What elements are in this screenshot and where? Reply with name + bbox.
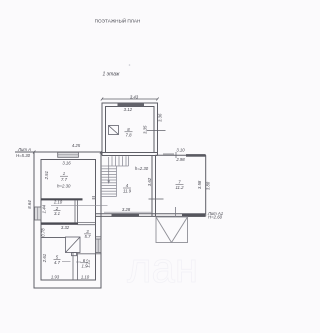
stove in room 3 — [66, 237, 81, 256]
door middle room to A1 leaf — [149, 198, 164, 200]
svg-text:3.88: 3.88 — [206, 181, 211, 190]
middle block + A1 bottom wall — [96, 213, 206, 215]
interior wall: room1 bottom thin part — [92, 197, 96, 199]
divider wall rooms 2/3 — [75, 200, 78, 222]
svg-text:Н=5.30: Н=5.30 — [16, 153, 31, 158]
svg-text:0.78: 0.78 — [41, 228, 46, 237]
left block inner wall — [41, 160, 96, 281]
svg-text:11.9: 11.9 — [123, 189, 132, 194]
stove in top room — [109, 126, 119, 135]
svg-text:3.28: 3.28 — [122, 207, 131, 212]
dim line 3.28 middle — [104, 211, 152, 213]
svg-text:5.7: 5.7 — [85, 234, 92, 239]
svg-text:3.43: 3.43 — [130, 94, 139, 99]
top room bottom wall — [102, 152, 158, 154]
interior wall: room2 bottom dark band — [41, 222, 78, 224]
svg-text:3.62: 3.62 — [147, 177, 152, 186]
stairs lower flight — [101, 166, 117, 197]
svg-text:1.10: 1.10 — [81, 274, 90, 279]
svg-text:2.51: 2.51 — [44, 170, 49, 180]
svg-text:Лит А: Лит А — [17, 147, 31, 152]
dim ticks on left block top line — [33, 151, 102, 154]
top room inner wall — [106, 107, 155, 153]
svg-text:3.36: 3.36 — [158, 113, 163, 122]
middle block right wall — [151, 156, 153, 217]
dim line right of top room — [147, 129, 166, 131]
svg-text:1 этаж: 1 этаж — [103, 72, 121, 78]
room5 top wall — [41, 237, 66, 239]
svg-text:h=2.30: h=2.30 — [135, 166, 149, 171]
svg-text:4.7: 4.7 — [54, 260, 61, 265]
top room outer wall — [102, 103, 158, 156]
window W1 on left block top wall — [58, 152, 79, 157]
svg-text:3.58: 3.58 — [197, 180, 202, 189]
svg-text:1.44: 1.44 — [41, 204, 46, 213]
door through left/middle shared wall — [51, 205, 108, 207]
stairs upper run — [101, 156, 129, 166]
svg-text:2.10: 2.10 — [53, 200, 63, 205]
door A1 to porch leaf — [175, 207, 177, 216]
window on top room top wall — [118, 103, 145, 107]
A1 right wall — [205, 155, 207, 216]
svg-text:2.98: 2.98 — [175, 157, 185, 162]
dimension line top room with ticks — [101, 98, 159, 101]
interior wall: room1 bottom dark band — [41, 198, 83, 200]
svg-text:3.1: 3.1 — [54, 211, 61, 216]
svg-text:7.8: 7.8 — [126, 132, 133, 137]
svg-text:1.93: 1.93 — [51, 274, 60, 279]
window on middle block bottom wall — [112, 214, 140, 217]
dim line 3.10 A1 with tick — [163, 152, 176, 158]
divider wall rooms 5/6 — [73, 253, 78, 281]
svg-text:8.64: 8.64 — [27, 200, 32, 209]
window on A1 top wall — [186, 154, 206, 157]
svg-text:ПОЭТАЖНЫЙ ПЛАН: ПОЭТАЖНЫЙ ПЛАН — [95, 17, 141, 24]
svg-text:7.7: 7.7 — [61, 177, 68, 182]
room 3/6 wall — [78, 253, 96, 255]
svg-text:h=2.30: h=2.30 — [57, 184, 71, 189]
svg-text:3.12: 3.12 — [124, 107, 133, 112]
svg-text:3.10: 3.10 — [176, 147, 185, 152]
svg-text:2.61: 2.61 — [42, 253, 47, 263]
svg-text:4.25: 4.25 — [72, 143, 81, 148]
window W2 on left block left wall — [35, 207, 42, 220]
porch — [156, 217, 188, 243]
svg-text:3.32: 3.32 — [61, 225, 70, 230]
svg-text:1.22: 1.22 — [86, 259, 91, 268]
stairs direction line with arrow — [108, 157, 110, 182]
dark wall segment A1 bottom — [182, 214, 205, 217]
interior wall: room2 bottom thin part — [78, 223, 96, 225]
svg-text:11.2: 11.2 — [175, 185, 184, 190]
top dim line extension to Lit A label — [15, 151, 34, 153]
leader line room5 — [62, 261, 71, 263]
window W3 on left block right wall lower — [96, 237, 102, 254]
svg-text:3.35: 3.35 — [143, 125, 148, 134]
left block outer wall — [34, 152, 101, 288]
leader line room6 — [76, 261, 81, 263]
svg-text:лан: лан — [127, 244, 198, 291]
A1 top wall — [156, 154, 207, 156]
svg-text:Н=2.60: Н=2.60 — [208, 215, 223, 220]
svg-text:3.16: 3.16 — [62, 161, 71, 166]
